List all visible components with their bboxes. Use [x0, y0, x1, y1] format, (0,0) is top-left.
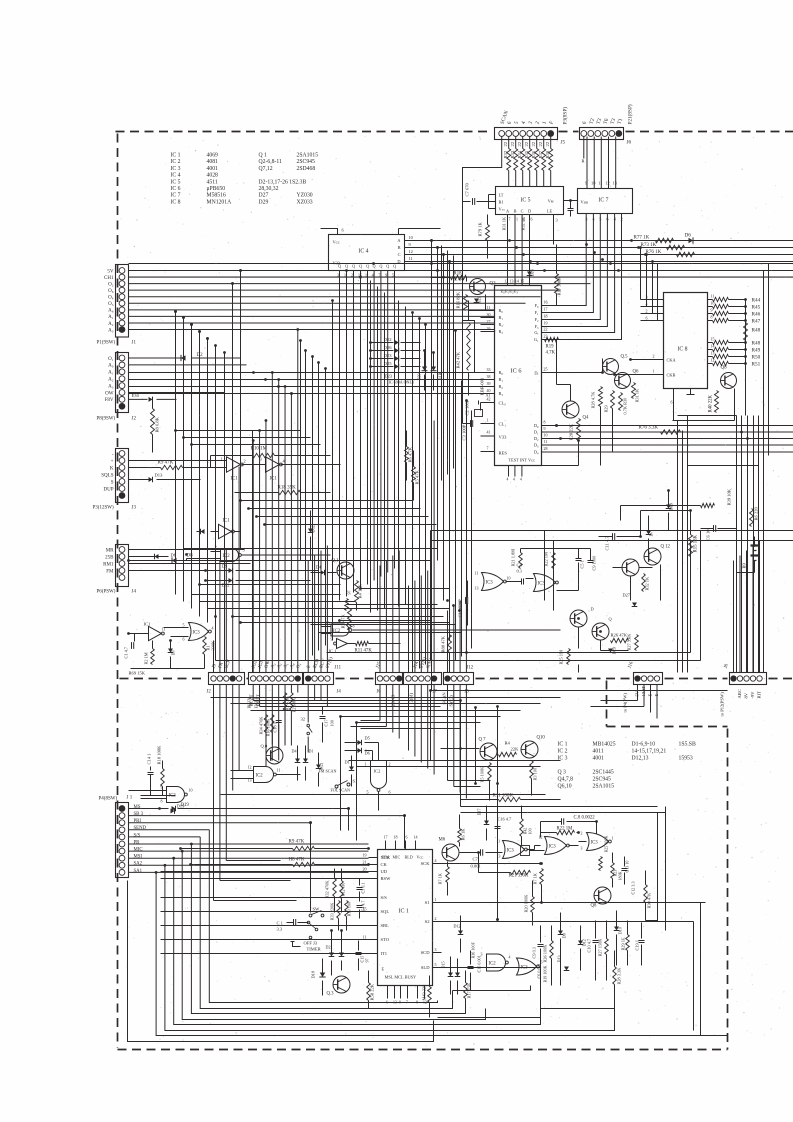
svg-text:R31 1K: R31 1K	[502, 216, 507, 230]
svg-text:PRI: PRI	[134, 819, 142, 824]
svg-text:4: 4	[212, 626, 214, 631]
svg-text:R51: R51	[752, 361, 761, 367]
svg-text:CKA: CKA	[667, 358, 677, 363]
svg-text:10: 10	[326, 621, 330, 626]
svg-text:J12: J12	[467, 666, 474, 671]
svg-text:D3: D3	[171, 650, 176, 655]
svg-text:Vᴍ: Vᴍ	[548, 199, 554, 204]
svg-text:D₂: D₂	[534, 436, 539, 441]
svg-text:11: 11	[409, 256, 413, 261]
svg-text:4001: 4001	[207, 166, 219, 172]
svg-text:S1: S1	[425, 900, 430, 905]
svg-text:11: 11	[363, 935, 367, 940]
svg-text:ABC: ABC	[737, 689, 742, 698]
svg-text:F₂: F₂	[535, 317, 539, 322]
svg-text:D21: D21	[477, 296, 482, 303]
svg-text:2SC1445: 2SC1445	[593, 770, 614, 776]
svg-text:D12: D12	[222, 583, 231, 588]
svg-text:SBL: SBL	[381, 923, 390, 928]
svg-text:RES: RES	[499, 451, 508, 456]
svg-text:1: 1	[653, 369, 655, 374]
svg-text:39: 39	[487, 381, 491, 386]
svg-text:R45: R45	[752, 304, 761, 310]
svg-text:B₁: B₁	[499, 377, 504, 382]
svg-text:R42 47K: R42 47K	[456, 351, 461, 368]
svg-text:P21(8SP): P21(8SP)	[627, 104, 634, 124]
svg-text:D29: D29	[259, 199, 269, 205]
svg-text:1: 1	[435, 897, 437, 902]
svg-text:9: 9	[409, 242, 411, 247]
svg-text:6: 6	[646, 316, 648, 321]
svg-text:2: 2	[581, 832, 583, 836]
svg-text:Q 1: Q 1	[259, 153, 268, 159]
svg-text:P6(PSW): P6(PSW)	[97, 590, 116, 595]
svg-text:22: 22	[544, 327, 548, 332]
svg-text:R3 47K: R3 47K	[341, 613, 346, 628]
svg-text:D26: D26	[384, 345, 393, 350]
svg-text:R20 100K: R20 100K	[524, 894, 529, 913]
svg-text:R48: R48	[752, 340, 761, 346]
svg-text:11: 11	[598, 181, 602, 186]
svg-text:19: 19	[363, 853, 367, 858]
svg-text:100: 100	[528, 828, 533, 834]
svg-text:D25: D25	[384, 361, 393, 366]
svg-text:R13 100: R13 100	[347, 902, 352, 917]
svg-text:C: C	[398, 252, 401, 257]
svg-text:O₆: O₆	[108, 289, 114, 294]
svg-text:Gᵣ: Gᵣ	[534, 330, 538, 335]
svg-text:14-15,17,19,21: 14-15,17,19,21	[632, 749, 667, 755]
svg-text:D17: D17	[477, 808, 482, 815]
svg-text:J2: J2	[207, 690, 212, 695]
svg-text:4: 4	[513, 478, 515, 482]
svg-text:R29 1E: R29 1E	[621, 937, 626, 950]
svg-text:J11: J11	[335, 666, 342, 671]
svg-text:R7 1K: R7 1K	[438, 872, 443, 884]
svg-text:R7 1K: R7 1K	[533, 872, 538, 884]
svg-text:11: 11	[711, 294, 715, 299]
svg-text:R32 1K: R32 1K	[645, 576, 650, 590]
svg-text:R47: R47	[752, 318, 761, 324]
svg-text:D4: D4	[316, 565, 322, 570]
svg-text:2: 2	[621, 217, 623, 222]
svg-text:Q 3: Q 3	[558, 770, 567, 776]
svg-text:F₀: F₀	[535, 303, 539, 308]
svg-text:IC3: IC3	[507, 848, 515, 853]
svg-text:D8: D8	[171, 553, 177, 558]
svg-text:0.001: 0.001	[471, 864, 481, 869]
svg-text:SCD: SCD	[421, 950, 431, 955]
svg-text:22: 22	[538, 141, 543, 146]
svg-text:4: 4	[507, 478, 509, 482]
svg-text:D12,13: D12,13	[632, 756, 649, 762]
svg-text:Q.3: Q.3	[327, 992, 335, 997]
svg-text:13: 13	[510, 279, 514, 284]
svg-text:IC2: IC2	[333, 629, 341, 634]
svg-text:SA2: SA2	[134, 862, 143, 867]
svg-text:MN1201A: MN1201A	[207, 199, 233, 205]
svg-text:Q7,12: Q7,12	[259, 166, 273, 172]
svg-text:C1 4.7: C1 4.7	[124, 646, 129, 658]
svg-text:D₁: D₁	[534, 430, 539, 435]
svg-text:1: 1	[487, 418, 489, 423]
svg-text:C17: C17	[324, 718, 329, 726]
svg-text:R10 1M: R10 1M	[251, 447, 268, 452]
svg-text:B₂: B₂	[499, 384, 504, 389]
svg-text:A₂: A₂	[108, 322, 114, 327]
svg-text:R32: R32	[503, 150, 508, 158]
svg-text:IC3: IC3	[486, 580, 494, 585]
svg-text:D₄: D₄	[534, 450, 539, 455]
svg-text:C.8 0.0022: C.8 0.0022	[574, 816, 596, 821]
svg-text:IC 7: IC 7	[599, 198, 609, 204]
svg-text:A₃: A₃	[108, 328, 114, 333]
svg-text:R27 5.6K: R27 5.6K	[627, 633, 632, 651]
svg-text:OW: OW	[105, 391, 114, 396]
svg-text:Q: Q	[386, 264, 389, 269]
svg-text:1: 1	[516, 217, 518, 222]
svg-text:Vᴄᴄ: Vᴄᴄ	[417, 855, 424, 860]
svg-text:K: K	[110, 466, 114, 471]
svg-text:C10 4.7: C10 4.7	[587, 938, 592, 953]
svg-text:R34: R34	[517, 150, 522, 158]
svg-text:A₃: A₃	[108, 384, 114, 389]
svg-text:20: 20	[363, 867, 367, 872]
svg-text:R25 100K: R25 100K	[604, 835, 609, 852]
svg-text:SA1: SA1	[134, 869, 143, 874]
svg-text:MIC: MIC	[393, 855, 401, 860]
svg-text:C19 1: C19 1	[635, 940, 640, 950]
svg-text:R17 380K: R17 380K	[557, 276, 562, 296]
svg-text:SB 3: SB 3	[134, 812, 144, 817]
svg-text:B1: B1	[499, 200, 504, 205]
svg-text:5: 5	[599, 217, 601, 222]
svg-text:D20: D20	[417, 373, 422, 380]
svg-text:SEND: SEND	[134, 826, 147, 831]
svg-text:J3: J3	[132, 506, 137, 511]
svg-text:D: D	[591, 607, 594, 612]
svg-text:C5 1: C5 1	[580, 560, 585, 568]
svg-text:180K: 180K	[618, 871, 623, 880]
svg-text:IC 6: IC 6	[171, 186, 181, 192]
svg-text:C12 3.3: C12 3.3	[631, 881, 636, 894]
svg-text:14: 14	[515, 279, 519, 284]
svg-text:F8V: F8V	[105, 398, 114, 403]
svg-text:M43 220: M43 220	[422, 985, 427, 1001]
svg-text:Q8: Q8	[721, 366, 728, 371]
svg-text:MS: MS	[134, 805, 141, 810]
svg-text:R₃: R₃	[499, 329, 504, 334]
svg-text:10: 10	[544, 433, 548, 438]
svg-text:12: 12	[605, 181, 609, 186]
svg-text:RLD: RLD	[405, 855, 413, 860]
svg-text:C 1: C 1	[277, 921, 283, 926]
svg-text:D5: D5	[365, 736, 370, 741]
svg-text:D23: D23	[385, 374, 392, 379]
svg-text:C13 820P: C13 820P	[458, 599, 463, 618]
svg-text:J5: J5	[561, 140, 566, 146]
svg-text:S: S	[111, 480, 114, 485]
svg-text:R29: R29	[604, 405, 609, 412]
svg-text:C14 1: C14 1	[147, 753, 152, 764]
svg-text:EMPT: EMPT	[254, 697, 259, 708]
svg-text:R5 47K: R5 47K	[415, 469, 420, 484]
svg-text:12: 12	[504, 279, 508, 284]
svg-text:FM: FM	[106, 569, 114, 574]
svg-text:2: 2	[435, 916, 437, 921]
svg-text:to P12(PSW): to P12(PSW)	[720, 692, 725, 717]
svg-text:13: 13	[497, 855, 501, 859]
svg-text:IC 6: IC 6	[511, 368, 522, 375]
svg-text:25: 25	[544, 367, 548, 372]
svg-text:2: 2	[646, 309, 648, 314]
svg-text:15953: 15953	[679, 756, 693, 762]
svg-text:UD: UD	[381, 869, 388, 874]
svg-text:17: 17	[384, 835, 388, 840]
svg-text:NCK: NCK	[381, 855, 391, 860]
svg-text:26: 26	[487, 326, 491, 331]
svg-text:R35: R35	[524, 150, 529, 158]
svg-text:J4: J4	[132, 590, 137, 595]
svg-text:8: 8	[353, 624, 355, 629]
svg-text:15: 15	[363, 907, 367, 912]
svg-text:Q4,7,8: Q4,7,8	[558, 777, 574, 783]
svg-text:A₀: A₀	[108, 364, 114, 369]
svg-text:XZ033: XZ033	[297, 199, 313, 205]
svg-text:IC2: IC2	[374, 769, 382, 774]
svg-text:8V: 8V	[744, 692, 749, 698]
svg-text:IC 8: IC 8	[678, 347, 688, 353]
svg-text:38: 38	[487, 374, 491, 379]
svg-text:R32 1K: R32 1K	[521, 216, 526, 230]
svg-text:22K: 22K	[511, 747, 520, 752]
svg-text:R9 47K: R9 47K	[158, 461, 174, 466]
svg-text:13: 13	[711, 351, 715, 356]
svg-text:G₁: G₁	[534, 337, 539, 342]
svg-text:18: 18	[394, 835, 398, 840]
svg-text:19: 19	[544, 321, 548, 326]
svg-text:Q 7: Q 7	[479, 738, 487, 743]
svg-text:D15: D15	[441, 961, 446, 968]
svg-text:22: 22	[531, 141, 536, 146]
svg-text:4: 4	[646, 302, 648, 307]
svg-text:22: 22	[517, 141, 522, 146]
svg-text:D6: D6	[685, 233, 692, 239]
svg-text:D19: D19	[181, 803, 190, 808]
svg-text:R76 3.3K: R76 3.3K	[639, 426, 659, 431]
svg-text:IC 3: IC 3	[171, 166, 181, 172]
svg-text:M58516: M58516	[207, 193, 226, 199]
svg-text:J6: J6	[627, 140, 632, 146]
svg-text:CL₀: CL₀	[499, 401, 507, 406]
svg-text:Q: Q	[379, 264, 382, 269]
svg-text:P8(9SW): P8(9SW)	[97, 417, 116, 422]
svg-text:3.3: 3.3	[277, 927, 283, 932]
svg-text:SCAN: SCAN	[442, 692, 447, 705]
svg-text:21: 21	[363, 860, 367, 865]
svg-text:R37: R37	[538, 150, 543, 158]
svg-text:14: 14	[414, 835, 418, 840]
svg-text:R19: R19	[546, 345, 555, 350]
svg-text:D₃: D₃	[534, 443, 539, 448]
svg-text:P4(8SW): P4(8SW)	[99, 797, 118, 802]
svg-text:DUP: DUP	[103, 487, 113, 492]
svg-text:C6 0.001: C6 0.001	[537, 963, 542, 978]
svg-text:R2 1M: R2 1M	[144, 652, 149, 664]
svg-text:O₂: O₂	[108, 282, 114, 287]
svg-text:13: 13	[613, 181, 617, 186]
svg-text:FM SCAN: FM SCAN	[319, 769, 337, 774]
svg-text:Q10: Q10	[537, 736, 546, 741]
svg-text:IC 5: IC 5	[521, 198, 531, 204]
svg-text:P3(12SW): P3(12SW)	[93, 506, 115, 511]
svg-text:J 1: J 1	[127, 796, 133, 801]
svg-text:R28 3.3K: R28 3.3K	[617, 967, 622, 985]
svg-text:R21 1.8M: R21 1.8M	[511, 549, 516, 567]
svg-text:Vᴅᴅ: Vᴅᴅ	[581, 200, 589, 205]
svg-text:12: 12	[248, 765, 252, 770]
svg-text:11: 11	[487, 305, 491, 310]
svg-text:D13: D13	[155, 473, 164, 478]
svg-text:D1: D1	[309, 749, 314, 754]
svg-text:D9: D9	[222, 564, 228, 569]
svg-text:MR: MR	[106, 548, 114, 553]
svg-text:TIMER: TIMER	[307, 947, 322, 952]
svg-text:10: 10	[409, 235, 413, 240]
svg-text:4: 4	[435, 858, 437, 863]
svg-text:9: 9	[161, 785, 163, 790]
svg-text:D27: D27	[259, 193, 269, 199]
svg-text:12: 12	[711, 358, 715, 363]
svg-text:E₀E₁E₂E₃: E₀E₁E₂E₃	[501, 289, 519, 294]
svg-text:CH1: CH1	[104, 276, 114, 281]
svg-text:P3(8SP): P3(8SP)	[562, 107, 569, 125]
svg-text:R44: R44	[752, 297, 761, 303]
svg-text:D12: D12	[582, 939, 587, 946]
svg-text:Q: Q	[352, 264, 355, 269]
svg-text:IC3: IC3	[521, 965, 529, 970]
svg-text:SLD: SLD	[421, 965, 430, 970]
svg-text:IC 7: IC 7	[171, 193, 181, 199]
svg-text:R19 100K: R19 100K	[543, 965, 548, 982]
svg-text:15: 15	[520, 279, 524, 284]
svg-text:Q6,10: Q6,10	[558, 784, 572, 790]
svg-text:41: 41	[487, 430, 491, 435]
svg-text:R30 47K: R30 47K	[647, 892, 652, 909]
svg-text:RM1: RM1	[103, 562, 114, 567]
svg-text:IC2: IC2	[489, 962, 497, 967]
svg-text:17: 17	[544, 307, 548, 312]
svg-text:R₁: R₁	[499, 315, 504, 320]
svg-text:IC 1: IC 1	[171, 153, 181, 159]
svg-text:9: 9	[331, 637, 333, 642]
svg-text:R4 10K: R4 10K	[358, 583, 363, 598]
svg-text:2: 2	[653, 354, 655, 359]
svg-text:1: 1	[221, 457, 223, 462]
svg-text:D13: D13	[557, 955, 562, 962]
svg-text:MIC: MIC	[134, 848, 143, 853]
svg-text:LE: LE	[547, 209, 553, 214]
svg-text:IC2: IC2	[256, 774, 264, 779]
svg-text:D27: D27	[623, 593, 631, 598]
svg-text:Q.0: Q.0	[261, 744, 268, 749]
svg-text:5: 5	[435, 962, 437, 967]
svg-text:TEST INT Vᴄᴄ: TEST INT Vᴄᴄ	[509, 458, 536, 463]
svg-text:R80 47K: R80 47K	[441, 635, 446, 652]
svg-text:V33: V33	[499, 435, 508, 440]
svg-text:D19: D19	[669, 503, 674, 510]
svg-text:SW: SW	[313, 907, 321, 912]
svg-text:R46: R46	[752, 311, 761, 317]
svg-text:28: 28	[544, 446, 548, 451]
svg-text:15: 15	[711, 337, 715, 342]
svg-text:D18: D18	[311, 971, 316, 978]
svg-text:C7 670: C7 670	[465, 182, 470, 196]
svg-text:R16 82K: R16 82K	[456, 291, 461, 308]
svg-text:R36: R36	[531, 150, 536, 158]
svg-text:B: B	[514, 209, 517, 214]
svg-text:C7: C7	[473, 857, 479, 862]
svg-text:C15: C15	[360, 956, 365, 963]
svg-text:10: 10	[591, 181, 595, 186]
svg-text:R15 18K: R15 18K	[694, 535, 699, 553]
svg-text:R1: R1	[206, 645, 211, 650]
svg-text:R38: R38	[545, 150, 550, 158]
svg-text:IC 5: IC 5	[171, 179, 181, 185]
svg-text:J1: J1	[132, 341, 137, 346]
svg-text:1S5.SB: 1S5.SB	[679, 742, 696, 748]
svg-text:2: 2	[389, 762, 391, 767]
svg-text:R42: R42	[523, 828, 528, 835]
svg-text:28,30,32: 28,30,32	[259, 186, 279, 192]
svg-text:F₃: F₃	[535, 324, 539, 329]
svg-text:D2-13,17-26 1S2.3B: D2-13,17-26 1S2.3B	[259, 179, 307, 185]
svg-text:Q 12: Q 12	[661, 545, 671, 550]
svg-text:3: 3	[435, 947, 437, 952]
svg-text:4: 4	[509, 956, 511, 960]
svg-text:Q.5: Q.5	[621, 355, 629, 360]
svg-text:C11 4.7: C11 4.7	[605, 536, 610, 551]
svg-text:3: 3	[585, 217, 587, 222]
svg-text:22: 22	[545, 141, 550, 146]
svg-text:IC3: IC3	[591, 840, 599, 845]
svg-text:R8 6.8K: R8 6.8K	[155, 416, 160, 432]
svg-text:RIT: RIT	[757, 691, 762, 699]
svg-text:11: 11	[277, 768, 281, 773]
svg-text:D22: D22	[384, 337, 393, 342]
svg-text:R6 220: R6 220	[754, 506, 759, 520]
svg-text:A₂: A₂	[108, 378, 114, 383]
svg-text:32: 32	[301, 717, 306, 722]
svg-text:O₄: O₄	[108, 296, 114, 301]
svg-text:6: 6	[183, 637, 185, 642]
svg-text:11: 11	[475, 571, 479, 576]
svg-text:R69 15K: R69 15K	[129, 671, 146, 676]
svg-text:D9: D9	[562, 933, 567, 938]
svg-text:BUZY: BUZY	[247, 697, 252, 708]
svg-text:4511: 4511	[207, 179, 218, 185]
svg-text:9: 9	[585, 181, 587, 186]
svg-text:2SC945: 2SC945	[593, 777, 612, 783]
svg-text:5V: 5V	[107, 269, 114, 274]
svg-text:R4: R4	[505, 741, 511, 746]
svg-text:R26 47K: R26 47K	[611, 633, 628, 638]
svg-text:IC1: IC1	[144, 622, 151, 627]
svg-text:6: 6	[671, 400, 673, 405]
svg-text:0.1: 0.1	[517, 569, 523, 574]
svg-text:9: 9	[711, 308, 713, 313]
svg-text:S/S: S/S	[381, 895, 388, 900]
